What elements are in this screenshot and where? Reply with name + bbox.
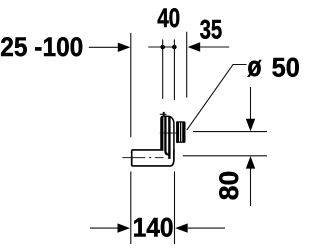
extension line (wall plane) x=131 upper	[130, 33, 132, 137]
140 dimension right tail	[188, 227, 225, 229]
arrowhead pointing right at wall line	[118, 43, 131, 52]
connector rib	[180, 122, 182, 142]
140 right extension line	[174, 171, 176, 244]
drum (adjustable flange bell of elbow)	[161, 116, 174, 150]
svg-text:35: 35	[200, 15, 223, 45]
35 arrowhead pointing left	[188, 42, 201, 51]
leader line for diameter 50	[187, 65, 247, 131]
pipe centerline (dash-dot)	[122, 157, 163, 159]
svg-text:80: 80	[214, 171, 244, 201]
svg-text:50: 50	[272, 53, 300, 83]
stem tick	[160, 113, 167, 115]
svg-text:40: 40	[157, 3, 180, 33]
dot right	[172, 45, 177, 50]
80 up arrow line	[250, 167, 252, 206]
drum inner line 1	[161, 117, 163, 151]
140 dimension left tail	[90, 227, 119, 229]
svg-text:ø: ø	[247, 51, 261, 83]
80 up arrowhead	[246, 156, 255, 169]
stem on drum top	[163, 112, 165, 117]
extension line 35-right	[186, 32, 188, 98]
80 bottom extension line (pipe axis)	[183, 155, 267, 157]
140 left extension line	[130, 172, 132, 245]
140 left arrowhead pointing right	[118, 223, 131, 232]
extension line 40-left	[162, 39, 164, 99]
svg-text:25 -100: 25 -100	[0, 32, 83, 62]
connector mid body	[178, 122, 182, 142]
horizontal pipe	[132, 150, 174, 166]
connector left ring	[176, 121, 178, 143]
drum inner line 3 (riser wall, thick)	[168, 116, 170, 158]
dot left	[160, 45, 165, 50]
40 dimension line with dots	[148, 46, 176, 48]
connector end ring	[183, 121, 186, 143]
140 right arrowhead pointing left	[175, 223, 188, 232]
leader line for 25-100	[89, 46, 119, 48]
80 top extension line (connector axis)	[193, 131, 267, 133]
80 down arrow line	[250, 87, 252, 120]
extension line 40-right	[173, 39, 175, 100]
connector centerline	[160, 132, 177, 134]
drum inner line 2 with bend foot	[165, 116, 168, 154]
80 down arrowhead	[246, 119, 255, 132]
35 dimension tail line	[200, 46, 229, 48]
svg-text:140: 140	[133, 213, 174, 243]
